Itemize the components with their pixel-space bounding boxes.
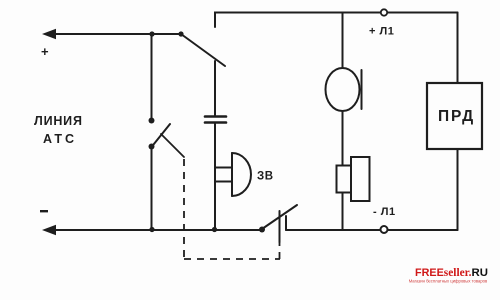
svg-text:+: + (41, 44, 49, 59)
svg-text:- Л1: - Л1 (373, 206, 396, 218)
svg-text:FREEseller.RU: FREEseller.RU (415, 267, 488, 279)
svg-text:ПРД: ПРД (438, 108, 475, 125)
svg-text:ЗВ: ЗВ (257, 171, 274, 183)
svg-text:+ Л1: + Л1 (369, 26, 394, 38)
svg-text:Магазин бесплатных цифровых то: Магазин бесплатных цифровых товаров (409, 278, 488, 283)
svg-text:АТС: АТС (43, 132, 77, 146)
svg-text:ЛИНИЯ: ЛИНИЯ (34, 114, 83, 128)
